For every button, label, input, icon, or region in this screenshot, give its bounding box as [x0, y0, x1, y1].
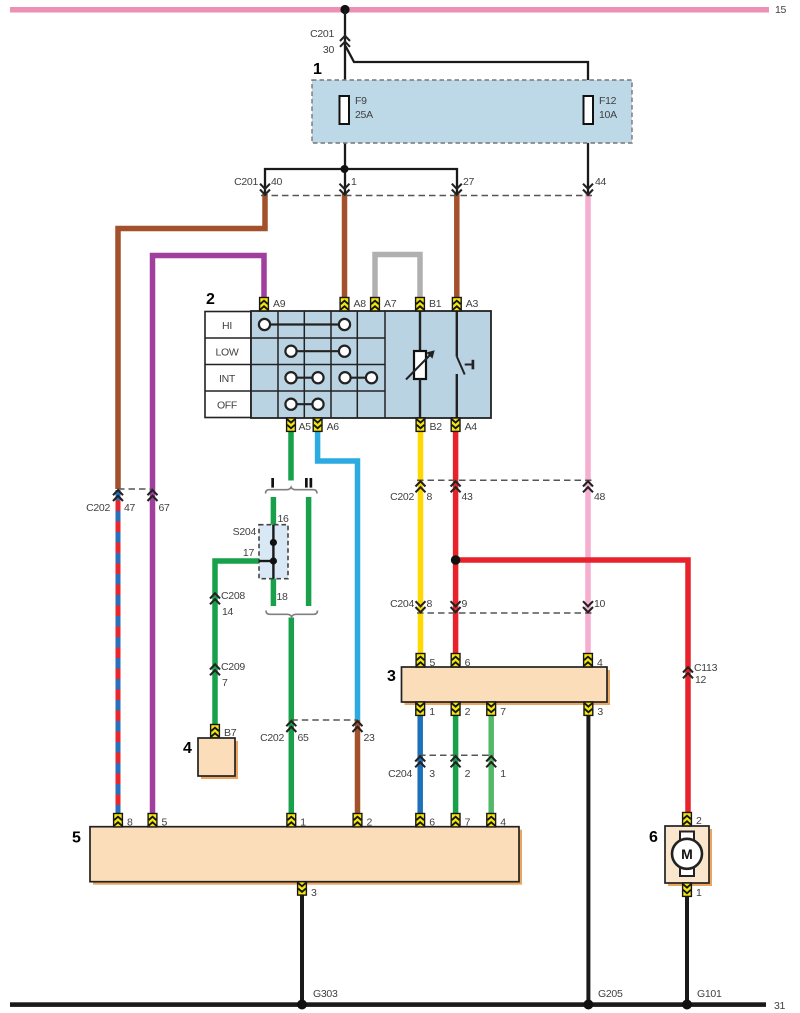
block 2 INT row contacts: [285, 372, 377, 383]
wire: green from block 2 pin A5 to branch I/II: [288, 431, 294, 481]
connector C202 pin 65 chevrons: [286, 721, 296, 732]
node: ground junction G205: [583, 1000, 593, 1010]
node: ground junction G101: [682, 1000, 692, 1010]
svg-text:8: 8: [127, 817, 133, 829]
switch block 2 body: [251, 311, 491, 418]
connector C113 chevrons: [683, 667, 693, 678]
svg-text:C204: C204: [390, 598, 414, 610]
connector C202 pin 47 chevrons: [113, 490, 123, 501]
svg-text:2: 2: [465, 706, 471, 718]
svg-text:2: 2: [367, 817, 373, 829]
wire: green branch I into switch S204: [271, 497, 277, 525]
svg-text:8: 8: [427, 598, 433, 610]
svg-text:3: 3: [429, 768, 435, 780]
block 2 pin A5: [287, 418, 296, 431]
wire: grey jumper between block 2 pins A7 and B1: [375, 255, 420, 299]
connector C202 lower dashed line (65/23): [291, 719, 357, 721]
wire: black stub to pin 1: [344, 169, 346, 196]
block 2 pin A3: [452, 298, 461, 311]
wire: red branch to wiper motor via C113: [456, 560, 688, 814]
node: junction dot at fuse branch: [341, 165, 349, 173]
power rail 15 (pink bus bar): [10, 7, 769, 13]
block 3 (wiper relay): [402, 667, 611, 705]
svg-text:48: 48: [594, 491, 606, 503]
block 2 pin B1: [416, 298, 425, 311]
connector C202 pin 23 chevrons: [353, 721, 363, 732]
svg-text:6: 6: [465, 657, 471, 669]
block 5 (wiper control module): [90, 827, 522, 885]
wire: black from block 3 pin 3 to ground G205: [586, 715, 590, 1005]
fuse F12 10A: [584, 96, 594, 124]
wire: black feed from rail 15 through fuse F9 to branch node: [344, 10, 346, 170]
block 3 pin 3: [584, 702, 593, 715]
block 3 pin 1: [416, 702, 425, 715]
wire: green from S204 pin 17 through C208, C209 to block 4 pin B7: [215, 561, 260, 726]
branch underbrace to C202-65: [266, 611, 318, 617]
block 2 OFF row contacts: [285, 399, 323, 410]
wire: red/blue striped from C202 pin 47 to block 5 pin 8: [116, 490, 121, 815]
block 2 HI row contacts: [259, 319, 350, 330]
svg-text:18: 18: [277, 591, 289, 603]
svg-text:23: 23: [364, 732, 376, 744]
wire: light blue from block 2 pin A6 to C202 pin 23: [318, 431, 358, 721]
wire: brown from C201 pin 27 to block 2 pin A3: [454, 194, 460, 299]
svg-text:B2: B2: [430, 421, 443, 433]
connector C204 pin 3 chevrons: [415, 756, 425, 767]
svg-text:2: 2: [696, 815, 702, 827]
connector C202 pin 67 chevrons: [148, 490, 158, 501]
svg-text:C201: C201: [310, 28, 334, 40]
motor M symbol: [672, 832, 702, 877]
svg-text:15: 15: [775, 4, 787, 16]
connector C204 pin 1 chevrons: [486, 756, 496, 767]
wire: brown from C201 pin 1 to block 2 pin A8: [342, 194, 348, 299]
block 3 pin 2: [451, 702, 460, 715]
svg-text:7: 7: [500, 706, 506, 718]
svg-text:1: 1: [500, 768, 506, 780]
svg-text:B1: B1: [429, 298, 442, 310]
svg-text:A5: A5: [299, 421, 312, 433]
wire: yellow from block 2 pin B2 through C202-8, C204-8 to block 3 pin 5: [418, 431, 424, 655]
switch S204 dashed box: [259, 525, 288, 579]
connector C201 pin 44 chevrons: [583, 184, 593, 195]
svg-text:HI: HI: [222, 320, 232, 332]
svg-text:S204: S204: [233, 526, 257, 538]
svg-text:4: 4: [500, 817, 506, 829]
svg-text:C209: C209: [221, 661, 245, 673]
svg-text:9: 9: [462, 598, 468, 610]
svg-text:F9: F9: [355, 95, 367, 107]
svg-text:30: 30: [323, 44, 335, 56]
block 2 pin A4: [451, 418, 460, 431]
svg-text:C202: C202: [390, 491, 414, 503]
branch label I: [271, 478, 274, 488]
wire: red from block 2 pin A4 through C204-9 to block 3 pin 6: [453, 431, 459, 655]
wire: green branch I below S204 (pin 18): [271, 579, 277, 607]
block 5 pin 2: [353, 814, 362, 827]
svg-text:OFF: OFF: [217, 400, 237, 412]
fuse box 1: [312, 80, 632, 143]
block 2 pin B2: [416, 418, 425, 431]
switch block 2 label column HI/LOW/INT/OFF: [205, 312, 251, 418]
block 2 washer switch contact: [457, 311, 473, 418]
svg-text:2: 2: [465, 768, 471, 780]
motor pin 1: [683, 883, 692, 896]
connector C202 right dashed line: [417, 479, 592, 481]
connector C204 pin 2 chevrons: [451, 756, 461, 767]
block 3 pin 4: [584, 654, 593, 667]
svg-text:LOW: LOW: [215, 347, 238, 359]
block 2 pin A8: [340, 298, 349, 311]
svg-text:3: 3: [597, 706, 603, 718]
block 2 LOW row contacts: [285, 346, 350, 357]
svg-text:6: 6: [429, 817, 435, 829]
node: ground junction G303: [297, 1000, 307, 1010]
svg-text:4: 4: [597, 657, 603, 669]
svg-text:C202: C202: [86, 502, 110, 514]
wire: green from block 3 pin 2 through C204-2 to block 5 pin 7: [453, 715, 459, 815]
block 5 pin 8: [114, 814, 123, 827]
connector C202 pin 48 chevrons: [583, 481, 593, 492]
block 4 pin B7: [211, 725, 220, 738]
connector C201 pin 40 chevrons: [260, 184, 270, 195]
wire: blue from block 3 pin 1 through C204-3 to block 5 pin 6: [417, 715, 423, 815]
connector C204 upper dashed line: [417, 612, 592, 614]
svg-text:C208: C208: [221, 590, 245, 602]
svg-text:40: 40: [271, 176, 283, 188]
svg-text:5: 5: [430, 657, 436, 669]
connector C201 pin 1 chevrons: [340, 184, 350, 195]
connector C204 pin 8 chevrons: [416, 601, 426, 612]
wire: black from block 5 pin 3 to ground G303: [300, 895, 304, 1005]
svg-text:A6: A6: [327, 421, 340, 433]
block 2 pin A9: [260, 298, 269, 311]
svg-text:G101: G101: [697, 988, 722, 1000]
svg-text:A9: A9: [273, 298, 286, 310]
svg-text:3: 3: [387, 668, 396, 685]
svg-text:A3: A3: [466, 298, 479, 310]
svg-text:G303: G303: [313, 988, 338, 1000]
svg-text:2: 2: [206, 291, 215, 308]
svg-text:47: 47: [124, 502, 136, 514]
svg-text:M: M: [681, 846, 693, 862]
wire: black from motor pin 1 to ground G101: [685, 896, 689, 1005]
svg-text:C204: C204: [388, 768, 412, 780]
connector C202 pin 8 chevrons: [416, 481, 426, 492]
svg-text:65: 65: [298, 732, 310, 744]
svg-text:C202: C202: [260, 732, 284, 744]
block 3 pin 7: [487, 702, 496, 715]
svg-text:17: 17: [243, 547, 255, 559]
connector C201 pin 27 chevrons: [452, 184, 462, 195]
svg-text:F12: F12: [599, 95, 617, 107]
wire: pink from C201 pin 44 to block 3 pin 4: [585, 194, 591, 655]
connector C201/30 chevrons: [340, 36, 350, 47]
svg-text:A4: A4: [465, 421, 478, 433]
svg-text:25A: 25A: [355, 109, 373, 121]
svg-text:A7: A7: [384, 298, 397, 310]
svg-text:5: 5: [72, 830, 81, 847]
svg-text:43: 43: [462, 491, 474, 503]
svg-text:10A: 10A: [599, 109, 617, 121]
block 2 variable resistor (wiper speed): [406, 311, 434, 418]
connector C202 left dashed line: [118, 488, 153, 490]
wire: brown from C201 pin 40 to C202 pin 47: [118, 194, 265, 489]
svg-text:31: 31: [774, 1000, 786, 1012]
svg-text:67: 67: [159, 502, 171, 514]
fuse F9 25A: [340, 96, 350, 124]
connector C204 pin 10 chevrons: [583, 601, 593, 612]
block 6 wiper motor box: [665, 826, 712, 886]
wire: black branch line below fuse F9 to pins 40 and 27: [265, 169, 457, 196]
block 2 pin A7: [371, 298, 380, 311]
branch overbrace I/II: [266, 487, 318, 493]
svg-text:7: 7: [222, 677, 228, 689]
node: junction dot on rail 15: [340, 5, 349, 14]
block 2 pin A6: [313, 418, 322, 431]
svg-text:3: 3: [311, 887, 317, 899]
svg-text:8: 8: [427, 491, 433, 503]
branch label II: [305, 478, 308, 488]
svg-text:C113: C113: [694, 662, 718, 674]
svg-text:1: 1: [696, 887, 702, 899]
svg-text:7: 7: [465, 817, 471, 829]
ground rail 31: [10, 1002, 766, 1007]
block 5 pin 5: [148, 814, 157, 827]
connector C202 pin 43 chevrons: [451, 481, 461, 492]
svg-text:27: 27: [463, 176, 475, 188]
svg-text:1: 1: [351, 176, 357, 188]
connector C208 chevrons: [210, 593, 220, 604]
connector C209 chevrons: [210, 664, 220, 675]
svg-text:44: 44: [595, 176, 607, 188]
wire: light green from block 3 pin 7 through C204-1 to block 5 pin 4: [488, 715, 494, 815]
block 5 pin 4: [487, 814, 496, 827]
svg-text:5: 5: [162, 817, 168, 829]
svg-text:INT: INT: [219, 373, 236, 385]
block 5 pin 3: [298, 882, 307, 895]
block 3 pin 5: [416, 654, 425, 667]
wire: green branch II: [306, 497, 312, 606]
wire: purple from block 2 pin A9 through C202 pin 67 to block 5 pin 5: [153, 256, 265, 815]
block 3 pin 6: [451, 654, 460, 667]
node: red junction dot: [451, 555, 461, 565]
svg-text:G205: G205: [598, 988, 623, 1000]
block 5 pin 7: [451, 814, 460, 827]
svg-text:1: 1: [300, 817, 306, 829]
S204 internal contact: pin 16 to 18 with taps: [259, 525, 277, 579]
block 5 pin 1: [287, 814, 296, 827]
svg-text:16: 16: [278, 513, 290, 525]
svg-text:B7: B7: [224, 727, 237, 739]
svg-text:12: 12: [695, 674, 707, 686]
block 5 pin 6: [416, 814, 425, 827]
svg-text:A8: A8: [354, 298, 367, 310]
motor pin 2: [683, 813, 692, 826]
wire: black branch to fuse F12: [346, 46, 589, 196]
svg-text:C201: C201: [234, 176, 258, 188]
connector C204 pin 9 chevrons: [451, 601, 461, 612]
wire: green merged branch through C202 pin 65 to block 5 pin 1: [289, 618, 295, 815]
connector C201 dashed line: [261, 195, 592, 197]
svg-text:10: 10: [594, 598, 606, 610]
svg-text:1: 1: [429, 706, 435, 718]
svg-text:6: 6: [649, 829, 658, 846]
svg-text:1: 1: [313, 61, 322, 78]
svg-text:4: 4: [183, 740, 192, 757]
wire: brown from C202 pin 23 to block 5 pin 2: [355, 720, 361, 815]
connector C204 lower dashed line (3/2/1): [419, 754, 493, 756]
svg-text:14: 14: [222, 606, 234, 618]
block 4 (washer pump relay): [198, 738, 238, 779]
